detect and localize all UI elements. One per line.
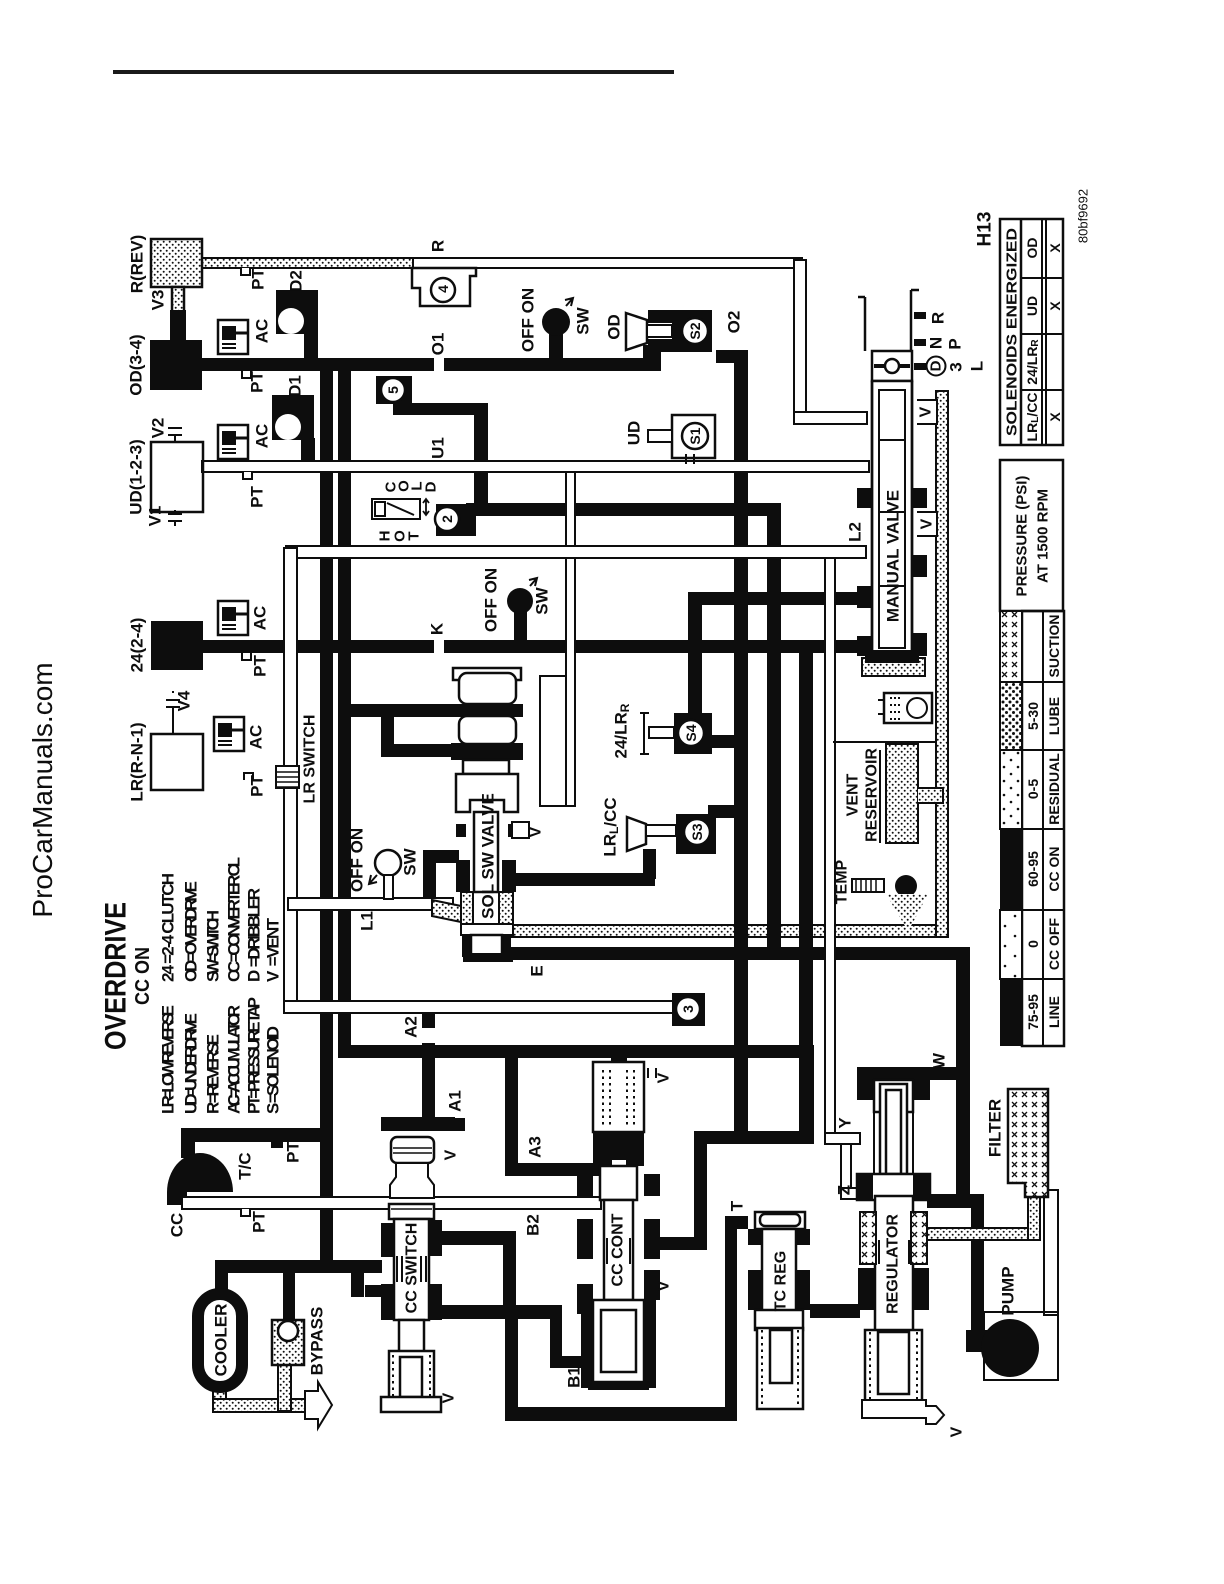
svg-text:OD: OD bbox=[605, 314, 624, 340]
svg-text:PT=PRESSURE TAP: PT=PRESSURE TAP bbox=[245, 997, 264, 1114]
svg-text:D: D bbox=[423, 481, 440, 492]
svg-text:OVERDRIVE: OVERDRIVE bbox=[100, 902, 133, 1050]
svg-text:L: L bbox=[968, 361, 987, 371]
svg-text:UD: UD bbox=[625, 421, 644, 446]
svg-text:UD: UD bbox=[1024, 296, 1040, 316]
svg-text:L2: L2 bbox=[846, 522, 865, 542]
svg-text:AC: AC bbox=[253, 424, 272, 449]
svg-text:AC: AC bbox=[253, 319, 272, 344]
svg-text:LRL/CC: LRL/CC bbox=[1024, 393, 1041, 442]
svg-text:5-30: 5-30 bbox=[1025, 702, 1041, 730]
svg-text:REGULATOR: REGULATOR bbox=[885, 1214, 902, 1314]
svg-text:LR(R-N-1): LR(R-N-1) bbox=[128, 722, 147, 801]
svg-text:AC: AC bbox=[251, 606, 270, 631]
svg-text:X: X bbox=[1047, 301, 1063, 311]
svg-text:S =SOLENOID: S =SOLENOID bbox=[264, 1026, 283, 1114]
svg-text:B2: B2 bbox=[524, 1214, 543, 1236]
svg-text:S4: S4 bbox=[683, 724, 699, 741]
svg-text:4: 4 bbox=[435, 285, 451, 293]
svg-text:T: T bbox=[728, 1200, 747, 1211]
svg-text:PT: PT bbox=[251, 655, 270, 677]
svg-text:R =REVERSE: R =REVERSE bbox=[204, 1034, 223, 1114]
svg-text:SOLENOIDS ENERGIZED: SOLENOIDS ENERGIZED bbox=[1004, 228, 1021, 436]
svg-text:LINE: LINE bbox=[1046, 996, 1062, 1028]
svg-text:OD: OD bbox=[1024, 238, 1040, 259]
svg-text:W: W bbox=[930, 1052, 949, 1069]
svg-text:CC CONT: CC CONT bbox=[610, 1213, 627, 1286]
svg-text:V: V bbox=[918, 406, 935, 417]
svg-text:OD(3-4): OD(3-4) bbox=[127, 334, 146, 395]
svg-text:75-95: 75-95 bbox=[1025, 994, 1041, 1030]
svg-text:5: 5 bbox=[385, 386, 401, 394]
svg-text:V: V bbox=[443, 1149, 460, 1160]
svg-text:SOL SW VALVE: SOL SW VALVE bbox=[479, 793, 498, 919]
svg-text:0-5: 0-5 bbox=[1025, 779, 1041, 799]
svg-text:P: P bbox=[946, 338, 965, 349]
svg-text:LRL/CC: LRL/CC bbox=[601, 797, 622, 856]
svg-text:PT: PT bbox=[248, 775, 267, 797]
svg-text:Y: Y bbox=[836, 1117, 855, 1129]
svg-text:PT: PT bbox=[284, 1141, 303, 1163]
svg-text:VENT: VENT bbox=[845, 773, 862, 816]
svg-text:D =DRIBBLER: D =DRIBBLER bbox=[245, 888, 264, 982]
svg-text:B1: B1 bbox=[565, 1366, 584, 1388]
svg-text:K: K bbox=[428, 622, 447, 635]
svg-text:RESIDUAL: RESIDUAL bbox=[1046, 753, 1062, 825]
svg-text:T/C: T/C bbox=[236, 1152, 255, 1179]
svg-text:S3: S3 bbox=[689, 823, 705, 840]
svg-text:80bf9692: 80bf9692 bbox=[1076, 189, 1091, 243]
svg-text:SW: SW bbox=[533, 586, 552, 614]
svg-text:PT: PT bbox=[249, 268, 268, 290]
svg-text:Z: Z bbox=[835, 1185, 854, 1195]
svg-text:BYPASS: BYPASS bbox=[308, 1307, 327, 1376]
svg-text:D1: D1 bbox=[286, 375, 305, 397]
svg-text:COOLER: COOLER bbox=[212, 1304, 231, 1377]
svg-text:TEMP: TEMP bbox=[834, 859, 851, 904]
svg-text:V =VENT: V =VENT bbox=[264, 917, 283, 982]
svg-text:PRESSURE (PSI): PRESSURE (PSI) bbox=[1014, 476, 1031, 597]
svg-text:N: N bbox=[927, 337, 946, 349]
svg-text:SW: SW bbox=[401, 847, 420, 875]
svg-text:24(2-4): 24(2-4) bbox=[128, 618, 147, 673]
svg-text:CC OFF: CC OFF bbox=[1046, 918, 1062, 971]
svg-text:AT 1500 RPM: AT 1500 RPM bbox=[1035, 489, 1052, 583]
svg-text:MANUAL VALVE: MANUAL VALVE bbox=[884, 490, 903, 622]
svg-text:AC: AC bbox=[247, 725, 266, 750]
svg-text:LR=LOW REVERSE: LR=LOW REVERSE bbox=[159, 1005, 178, 1114]
svg-text:V3: V3 bbox=[149, 290, 168, 311]
svg-text:24 =2-4 CLUTCH: 24 =2-4 CLUTCH bbox=[159, 873, 178, 982]
svg-text:SW: SW bbox=[574, 306, 593, 334]
svg-text:X: X bbox=[1047, 243, 1063, 253]
svg-text:CC ON: CC ON bbox=[132, 947, 154, 1005]
svg-text:R: R bbox=[929, 312, 948, 324]
svg-text:L1: L1 bbox=[358, 911, 377, 931]
svg-text:V: V bbox=[656, 1072, 673, 1083]
svg-text:RESERVOIR: RESERVOIR bbox=[864, 748, 881, 842]
svg-text:2: 2 bbox=[439, 515, 455, 523]
svg-text:V: V bbox=[441, 1392, 458, 1403]
svg-text:V: V bbox=[528, 826, 545, 837]
svg-text:CC =CONVERTER CL: CC =CONVERTER CL bbox=[225, 857, 244, 982]
svg-text:PT: PT bbox=[250, 1211, 269, 1233]
svg-text:OD =OVERDRIVE: OD =OVERDRIVE bbox=[182, 881, 201, 982]
svg-text:UD=UNDERDRIVE: UD=UNDERDRIVE bbox=[182, 1013, 201, 1114]
svg-text:PT: PT bbox=[248, 486, 267, 508]
svg-text:CC: CC bbox=[168, 1213, 187, 1238]
svg-text:LUBE: LUBE bbox=[1046, 697, 1062, 735]
svg-text:O2: O2 bbox=[725, 311, 744, 334]
svg-text:OFF ON: OFF ON bbox=[348, 828, 367, 892]
svg-text:UD(1-2-3): UD(1-2-3) bbox=[127, 439, 146, 515]
svg-text:A1: A1 bbox=[446, 1090, 465, 1112]
svg-text:O1: O1 bbox=[429, 333, 448, 356]
svg-text:R: R bbox=[429, 240, 448, 252]
svg-text:T: T bbox=[406, 531, 423, 540]
svg-text:CC SWITCH: CC SWITCH bbox=[404, 1223, 421, 1314]
svg-text:V1: V1 bbox=[146, 506, 165, 527]
svg-text:OFF ON: OFF ON bbox=[519, 288, 538, 352]
svg-text:CC ON: CC ON bbox=[1046, 846, 1062, 891]
svg-text:FILTER: FILTER bbox=[986, 1099, 1005, 1157]
svg-text:3: 3 bbox=[947, 362, 966, 371]
svg-text:0: 0 bbox=[1025, 940, 1041, 948]
svg-text:ProCarManuals.com: ProCarManuals.com bbox=[27, 662, 58, 917]
svg-text:SW=SWITCH: SW=SWITCH bbox=[204, 910, 223, 982]
svg-text:A3: A3 bbox=[526, 1136, 545, 1158]
svg-text:V4: V4 bbox=[175, 690, 194, 711]
svg-text:E: E bbox=[528, 965, 547, 976]
svg-text:LR SWITCH: LR SWITCH bbox=[302, 715, 319, 804]
svg-text:AC=ACCUMULATOR: AC=ACCUMULATOR bbox=[225, 1005, 244, 1114]
svg-text:OFF ON: OFF ON bbox=[482, 568, 501, 632]
svg-text:PT: PT bbox=[248, 371, 267, 393]
svg-text:R(REV): R(REV) bbox=[128, 235, 147, 294]
svg-text:V: V bbox=[656, 1280, 673, 1291]
svg-text:X: X bbox=[1047, 412, 1063, 422]
svg-text:H13: H13 bbox=[975, 212, 996, 247]
svg-text:S1: S1 bbox=[687, 427, 703, 444]
svg-text:60-95: 60-95 bbox=[1025, 851, 1041, 887]
svg-text:D2: D2 bbox=[287, 270, 306, 292]
svg-text:S2: S2 bbox=[687, 322, 703, 339]
svg-text:V2: V2 bbox=[149, 418, 168, 439]
svg-text:TC REG: TC REG bbox=[773, 1251, 790, 1311]
svg-text:3: 3 bbox=[680, 1005, 696, 1013]
svg-text:PUMP: PUMP bbox=[999, 1266, 1018, 1315]
svg-text:SUCTION: SUCTION bbox=[1046, 615, 1062, 678]
svg-text:V: V bbox=[919, 518, 936, 529]
svg-text:D: D bbox=[928, 360, 945, 371]
svg-text:U1: U1 bbox=[429, 437, 448, 459]
svg-text:A2: A2 bbox=[402, 1016, 421, 1038]
svg-text:V: V bbox=[949, 1426, 966, 1437]
